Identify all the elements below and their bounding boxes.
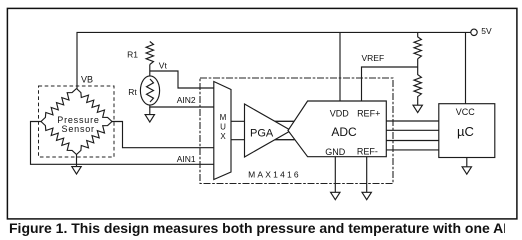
wire: GND pin to ground — [334, 157, 336, 193]
wire: uC VCC drop — [465, 32, 467, 103]
svg-text:Sensor: Sensor — [62, 124, 95, 134]
svg-text:Rt: Rt — [128, 87, 137, 97]
microcontroller uC box — [439, 104, 495, 158]
wire: differential pair MUX-PGA-ADC — [228, 120, 299, 122]
svg-text:ADC: ADC — [331, 125, 357, 139]
svg-text:VCC: VCC — [456, 107, 476, 117]
wire: diff pair across bowtie — [275, 120, 294, 122]
mux U1a — [214, 82, 231, 180]
svg-text:U: U — [220, 123, 226, 132]
svg-text:REF-: REF- — [357, 147, 378, 157]
wire: Rt bottom junction, AIN2 line to MUX — [150, 105, 215, 107]
op-amp PGA — [245, 104, 292, 157]
MAX1416 dash-dot box — [200, 78, 393, 184]
svg-text:VB: VB — [81, 74, 93, 84]
bridge (Pressure Sensor): four zigzag arms — [41, 89, 77, 122]
ground (uC) — [466, 158, 468, 167]
svg-text:REF+: REF+ — [357, 108, 380, 118]
svg-text:PGA: PGA — [250, 127, 274, 139]
wire: VDD supply drop — [339, 32, 341, 101]
resistor (divider bottom) — [414, 59, 421, 105]
resistor (divider top) — [414, 32, 421, 58]
svg-text:Vt: Vt — [159, 61, 168, 71]
ground (bridge bottom) — [76, 155, 78, 167]
svg-text:M: M — [220, 113, 227, 122]
wire: bridge left node to AIN1 line — [31, 122, 215, 165]
figure caption (cropped at page edge) — [9, 220, 505, 236]
svg-text:VREF: VREF — [362, 53, 385, 63]
ground (Rt) — [149, 107, 151, 115]
wire: R1 bottom to Vt node and to Rt top — [149, 65, 151, 77]
net VREF — [362, 67, 418, 101]
svg-text:5V: 5V — [481, 26, 492, 36]
svg-text:µC: µC — [457, 124, 474, 139]
svg-text:R1: R1 — [127, 49, 138, 59]
svg-text:GND: GND — [325, 147, 346, 157]
thermistor Rt — [140, 76, 159, 105]
svg-text:X: X — [220, 132, 226, 141]
wire: bridge right node to MUX — [112, 122, 215, 148]
wire: REF- pin to ground — [366, 157, 368, 193]
ground (divider) — [413, 105, 422, 112]
ADC block — [288, 101, 386, 157]
svg-text:MAX1416: MAX1416 — [248, 169, 301, 179]
pressure sensor dashed box — [39, 86, 115, 157]
node Vt / wire to MUX AIN2+ — [150, 71, 215, 88]
svg-text:AIN2: AIN2 — [177, 95, 196, 105]
svg-text:VDD: VDD — [330, 108, 350, 118]
svg-text:AIN1: AIN1 — [177, 154, 196, 164]
wire: serial interface lines ADC to uC — [386, 120, 439, 122]
wire: +5V top rail — [77, 32, 471, 89]
resistor R1 — [146, 42, 153, 65]
terminal 5V — [471, 29, 477, 35]
